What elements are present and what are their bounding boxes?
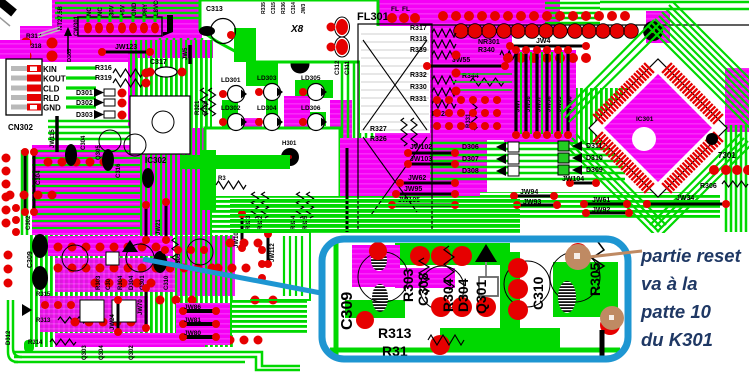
jumper JW105 (392, 204, 455, 207)
pcb magenta above CN302 (0, 40, 30, 59)
jumper JW115 (55, 116, 59, 152)
resistor R324 (297, 192, 304, 218)
green blobs LD area (246, 60, 278, 86)
green traces in left mid band (32, 150, 140, 152)
capacitor C309 body (32, 234, 48, 258)
pcb magenta centre band (375, 0, 512, 140)
inset pad bottom right (600, 315, 620, 335)
svg-text:du K301: du K301 (641, 329, 713, 350)
svg-text:R327: R327 (370, 126, 387, 133)
transistor circle main3 (187, 239, 213, 265)
pcb right lower white (690, 145, 749, 195)
svg-text:C311: C311 (345, 60, 351, 75)
pad cluster bl extra4 (226, 239, 235, 248)
svg-text:R3: R3 (218, 176, 226, 182)
jumper JW81 (183, 322, 216, 326)
tan marker 2 (600, 306, 624, 330)
white channel with X (360, 26, 430, 133)
svg-text:LD305: LD305 (301, 75, 321, 82)
svg-text:Q305: Q305 (96, 145, 102, 160)
svg-text:D306: D306 (462, 144, 479, 151)
pad cluster bl extra1 (41, 301, 49, 309)
inset Q301 square (479, 277, 498, 296)
svg-text:D305: D305 (67, 49, 73, 62)
inset resistor R304 zigzag (444, 246, 454, 290)
svg-text:R322: R322 (258, 215, 264, 230)
board corner cut line (0, 0, 14, 13)
svg-text:C304: C304 (36, 170, 42, 185)
jumper JW92 (586, 212, 629, 215)
pads row left mid2 (6, 191, 15, 200)
svg-text:R325: R325 (303, 215, 309, 230)
svg-text:JW4: JW4 (536, 38, 551, 45)
hole pad top LD area (291, 55, 310, 74)
jumper vertical left 2 (33, 152, 36, 212)
capacitor C310 main (153, 251, 167, 273)
svg-text:C316: C316 (116, 163, 122, 178)
capacitor C304 body (65, 144, 77, 166)
jumper JW103 (408, 163, 455, 166)
resistor R325 (307, 192, 314, 218)
svg-text:JW93: JW93 (523, 199, 541, 206)
label Q302 pads (251, 296, 260, 305)
pcb magenta block top-right (646, 11, 670, 43)
green trunk through LD303 (266, 58, 278, 138)
svg-text:LD301: LD301 (221, 77, 241, 84)
capacitor C306 body (142, 168, 154, 188)
capacitor C316 body (102, 149, 114, 171)
pcb green trace bundle top-left edge (55, 2, 215, 5)
pcb field left of IC302 (135, 58, 212, 138)
svg-text:C309: C309 (339, 292, 356, 330)
svg-text:JW94: JW94 (520, 189, 538, 196)
svg-text:D304: D304 (129, 275, 135, 290)
svg-text:R339: R339 (410, 47, 427, 54)
green threading through jumper zone (520, 52, 522, 134)
pads right of FL301 (387, 13, 397, 23)
svg-text:R303: R303 (96, 275, 102, 290)
svg-text:partie reset: partie reset (640, 245, 742, 266)
svg-text:JW102: JW102 (410, 144, 432, 151)
svg-text:R305: R305 (587, 262, 603, 296)
jumper JW24 (117, 300, 120, 332)
svg-text:R336: R336 (281, 2, 287, 14)
jumper JW5 vertical (188, 45, 192, 64)
pcb bottom green blobs (175, 236, 235, 296)
transistor Q306 (124, 134, 146, 156)
pads column left of R344 (452, 51, 461, 60)
inset transistor circle right2 (550, 252, 600, 302)
IC301 pin band NW (593, 114, 603, 124)
pad row below JW4 (503, 53, 513, 63)
vertical black bar centre (346, 148, 349, 232)
svg-text:FL: FL (391, 6, 399, 13)
svg-text:R330: R330 (410, 84, 427, 91)
pcb top-right white field (560, 0, 749, 58)
inset panel background (322, 239, 628, 359)
transistor Q301 main (62, 245, 88, 271)
svg-text:D302: D302 (76, 100, 93, 107)
inset cap C309 stripes bottom (372, 284, 388, 312)
svg-text:patte 10: patte 10 (640, 301, 712, 322)
jumper JW62 (400, 182, 455, 185)
svg-text:R303: R303 (400, 268, 416, 302)
power header J301 outline (78, 17, 162, 36)
svg-text:JW115: JW115 (50, 129, 56, 148)
connector CN302 pins KIN KOUT CLD RLD GND (11, 66, 28, 71)
jumper JW102 (408, 152, 455, 155)
pcb magenta right-top band (498, 0, 560, 28)
pad row bl 1 (54, 243, 63, 252)
inset border (322, 239, 628, 359)
svg-text:FL301: FL301 (357, 11, 389, 23)
green traces right of CN302 (66, 66, 96, 69)
pcb white region centre-mid (205, 128, 340, 200)
pad cluster bl extra2 (161, 246, 169, 254)
svg-text:JW112: JW112 (270, 243, 276, 262)
magenta strips LD area (284, 96, 310, 138)
svg-text:JW34: JW34 (676, 195, 694, 202)
pcb green traces bottom-left sweep (14, 351, 245, 354)
pads row left mid (44, 158, 53, 167)
svg-text:R332: R332 (410, 72, 427, 79)
jumper JW61 (584, 203, 627, 206)
svg-text:C309: C309 (27, 251, 34, 268)
svg-text:R319: R319 (95, 75, 112, 82)
inset cap C310 stripes (558, 281, 576, 313)
IC301 pin band NE (662, 63, 672, 73)
inset green traces (395, 243, 510, 265)
jumper JW123 (102, 51, 150, 54)
svg-text:7301: 7301 (718, 151, 736, 160)
svg-text:NT27.5B: NT27.5B (58, 5, 64, 30)
green blob bottom-left corner (24, 340, 34, 352)
component bodies bottom row (80, 300, 104, 322)
diode D312 (22, 304, 32, 316)
pad right corner IC301 (706, 133, 718, 145)
pcb band below centre white (212, 196, 342, 235)
svg-text:JW81: JW81 (184, 317, 201, 324)
svg-text:R335: R335 (261, 2, 267, 14)
svg-text:D312: D312 (6, 330, 12, 345)
jumper JW104 (570, 182, 596, 185)
svg-text:H301: H301 (282, 141, 297, 147)
svg-text:Q301: Q301 (473, 280, 489, 314)
svg-text:PRY: PRY (143, 4, 149, 16)
svg-text:D303: D303 (76, 112, 93, 119)
X footprint diagonals (363, 40, 427, 215)
pad grid centre-right (433, 96, 441, 104)
pad cluster bl extra3 (214, 264, 223, 273)
black stub right of header (163, 15, 173, 36)
svg-text:D307: D307 (462, 156, 479, 163)
svg-text:LD304: LD304 (257, 105, 277, 112)
callout leader line (143, 259, 321, 293)
pcb magenta patch right of IC301 (725, 68, 749, 132)
svg-text:D309: D309 (586, 167, 603, 174)
grey trace bundle corner (38, 27, 60, 37)
svg-text:Q302: Q302 (129, 345, 135, 360)
pcb green stripes right of jumpers (576, 88, 631, 143)
diode D304 main (122, 240, 138, 252)
svg-text:JW123: JW123 (115, 44, 137, 51)
green blob right of C313 (234, 28, 256, 62)
capacitor C308 body (32, 266, 48, 290)
svg-text:X8: X8 (290, 24, 304, 35)
jumper JW112 (267, 234, 270, 264)
jumper JW21 (165, 202, 168, 240)
pcb magenta field top-left (52, 0, 202, 26)
svg-text:C30: C30 (106, 278, 112, 290)
pcb green verticals centre band (341, 0, 344, 138)
pcb left edge green verts mid (21, 150, 24, 235)
svg-text:R340: R340 (478, 47, 495, 54)
svg-text:LD302: LD302 (221, 105, 241, 112)
pads Z301 (709, 165, 719, 175)
inset transistor circle left (358, 252, 408, 302)
jumper JW55 (427, 65, 505, 68)
power header pads (84, 23, 92, 34)
IC301 pin band SW (644, 183, 654, 193)
svg-text:R304: R304 (440, 278, 456, 312)
svg-text:JW92: JW92 (592, 207, 610, 214)
svg-text:C302: C302 (26, 215, 32, 230)
pad pair bl (226, 336, 235, 345)
svg-text:JW86: JW86 (184, 304, 201, 311)
jumper JW4 (510, 45, 586, 48)
IC IC301 body (589, 59, 727, 197)
jumper JW109 (241, 214, 244, 248)
pcb magenta band mid-right (340, 138, 487, 233)
svg-text:NR301: NR301 (478, 39, 500, 46)
transistor Q305 (99, 130, 121, 152)
svg-text:R314: R314 (28, 340, 43, 346)
svg-text:FL: FL (402, 6, 410, 13)
inset resistor R313 zigzag (428, 335, 464, 345)
svg-text:R304: R304 (118, 275, 124, 290)
pcb green verticals below header (159, 38, 162, 62)
svg-text:JW61: JW61 (592, 197, 610, 204)
svg-text:NC: NC (87, 7, 93, 16)
pcb magenta under vertical jumpers (504, 50, 576, 142)
resistor R323 (252, 192, 259, 218)
svg-text:R318: R318 (410, 36, 427, 43)
inset transistor circle mid (420, 266, 464, 310)
pcb magenta patches bottom-left (48, 236, 173, 256)
svg-text:R315: R315 (36, 292, 51, 298)
pad row bl 4 (71, 318, 80, 327)
svg-text:C314: C314 (291, 2, 297, 14)
IC IC302 body (130, 96, 190, 154)
top bus line (420, 24, 749, 26)
inset mid pad row (431, 297, 451, 317)
svg-text:JW104: JW104 (562, 176, 584, 183)
pcb green band right mid (480, 192, 720, 219)
svg-text:CLD: CLD (43, 85, 60, 94)
jumper JW29 (145, 205, 148, 240)
transistor circle main2 (126, 244, 154, 272)
IC301 interior (604, 74, 712, 182)
component square main (106, 252, 119, 265)
inset green plane left (325, 241, 625, 358)
green cross trace centre (200, 150, 216, 210)
inset pad bottom left (356, 311, 374, 329)
svg-text:R324: R324 (291, 215, 297, 230)
svg-text:IC302: IC302 (145, 156, 167, 165)
green traces below CN302 (48, 120, 132, 123)
svg-text:LD306: LD306 (301, 105, 321, 112)
board corner thin edge (0, 16, 10, 26)
svg-text:D311: D311 (586, 143, 602, 150)
IC301 centre hole (632, 127, 656, 151)
svg-text:+5V: +5V (121, 5, 127, 16)
svg-text:LD303: LD303 (257, 75, 277, 82)
svg-text:C312: C312 (335, 60, 341, 75)
svg-text:CN302: CN302 (8, 123, 33, 132)
pcb left edge pads mid (2, 154, 11, 163)
svg-text:R326: R326 (370, 136, 387, 143)
svg-text:CW301: CW301 (74, 15, 80, 36)
connector CN302 body (6, 59, 42, 115)
inset black bar bottom right (600, 330, 605, 358)
pcb white LD area (212, 58, 378, 138)
inset pads column Q301 (508, 258, 528, 278)
inset magenta patch (352, 245, 400, 287)
pcb white window top-centre (200, 0, 378, 62)
pcb mid band left magenta (32, 145, 140, 237)
pad cluster bl extra5 (258, 246, 266, 254)
pcb mid band left2 (140, 128, 212, 235)
svg-text:JW103: JW103 (410, 156, 432, 163)
svg-text:va à la: va à la (641, 273, 698, 294)
jumper vertical left 1 (24, 152, 27, 212)
svg-text:L8VCC: L8VCC (154, 0, 160, 16)
jumper JW93 (517, 204, 557, 207)
component outline K301 frame (358, 24, 432, 230)
pad pair left edge bottom (4, 251, 13, 260)
svg-text:KIN: KIN (43, 65, 57, 74)
green trace bundle mid-bottom (230, 199, 520, 201)
pcb right edge vertical traces (725, 125, 728, 232)
power header green stubs (87, 12, 90, 22)
svg-text:C310: C310 (164, 275, 170, 290)
pcb magenta pocket below header (425, 85, 513, 140)
inset pad right top (568, 243, 588, 263)
pad row bl 2 (54, 264, 63, 273)
svg-text:KOUT: KOUT (43, 75, 66, 84)
inset resistor R303 zigzag (419, 258, 429, 294)
svg-text:R317: R317 (410, 25, 427, 32)
inset pad top left (369, 242, 387, 260)
svg-text:NC: NC (98, 7, 104, 16)
svg-text:R313: R313 (378, 325, 412, 341)
jumper JW34 (647, 203, 726, 206)
svg-text:Q303: Q303 (82, 345, 88, 360)
svg-text:R316: R316 (95, 65, 112, 72)
resistor R331 vertical (471, 100, 477, 130)
inset cap C309 stripes top (371, 249, 387, 271)
svg-text:D301: D301 (76, 90, 93, 97)
jumper JW70 (145, 288, 148, 328)
svg-text:D310: D310 (586, 155, 603, 162)
green trace corner steps (230, 232, 310, 300)
pcb green horizontal traces top-right (545, 2, 600, 5)
svg-text:C317: C317 (150, 59, 167, 66)
black pad top-right (643, 21, 663, 41)
jumper JW95 (396, 193, 455, 196)
svg-text:JW80: JW80 (184, 330, 201, 337)
resistor R3xx mid (216, 181, 246, 189)
pad row bl 5 (156, 296, 165, 305)
resistor R305 main (172, 238, 178, 264)
jumper JW80 (183, 335, 216, 339)
IC301 pin band SE (713, 132, 723, 142)
svg-text:D308: D308 (462, 168, 479, 175)
tan leader line (580, 251, 642, 258)
svg-text:R321: R321 (195, 100, 201, 115)
svg-text:R323: R323 (246, 215, 252, 230)
svg-text:R306: R306 (700, 183, 717, 190)
jumper JW86 (183, 309, 216, 313)
svg-text:JW70: JW70 (138, 299, 144, 315)
svg-text:JW95: JW95 (404, 186, 422, 193)
inset transistor circle right1 (504, 261, 550, 307)
svg-text:C308: C308 (415, 272, 431, 306)
inset diode D304 triangle (475, 244, 497, 262)
svg-text:D304: D304 (455, 278, 471, 312)
diode D305 triangle (64, 27, 72, 36)
jumper JW94 (514, 195, 554, 198)
jumpers JW7 JW56 JW57 JW58 JW59 JW60 (514, 50, 517, 135)
svg-text:Q304: Q304 (99, 345, 105, 360)
svg-text:JW3: JW3 (301, 4, 307, 15)
pcb magenta field left mid (128, 40, 213, 128)
pad row top small (438, 11, 448, 21)
svg-text:R320: R320 (203, 100, 209, 115)
svg-text:JW21: JW21 (156, 219, 162, 235)
svg-text:C313: C313 (206, 6, 223, 13)
pcb bottom-left field (28, 235, 233, 347)
pad row top large (454, 24, 469, 39)
svg-text:C310: C310 (530, 276, 546, 310)
inset resistor R305 zigzag (592, 242, 604, 271)
svg-text:GND: GND (132, 2, 138, 16)
resistor R322 (262, 192, 269, 218)
svg-text:R331: R331 (410, 96, 427, 103)
svg-text:RLD: RLD (43, 94, 60, 103)
magenta block behind JW8x jumpers (176, 303, 230, 345)
svg-text:JW5: JW5 (183, 47, 189, 60)
svg-text:JW24: JW24 (110, 314, 116, 330)
pcb green band mid-bottom (230, 196, 520, 233)
capacitors C312 C311 pads (336, 19, 348, 35)
tan marker 1 (565, 244, 591, 270)
svg-text:JW62: JW62 (408, 175, 426, 182)
pcb green traces mid-right horizontals (430, 142, 625, 145)
inset top pad row (410, 246, 430, 266)
svg-text:IC301: IC301 (636, 116, 654, 123)
svg-text:C315: C315 (271, 2, 277, 14)
inset pad bottom mid (430, 335, 450, 355)
svg-text:R313: R313 (36, 318, 51, 324)
svg-text:GND: GND (43, 104, 61, 113)
svg-text:30V: 30V (109, 5, 115, 16)
svg-text:C304: C304 (81, 135, 87, 150)
pad row bl 3 (91, 279, 100, 288)
